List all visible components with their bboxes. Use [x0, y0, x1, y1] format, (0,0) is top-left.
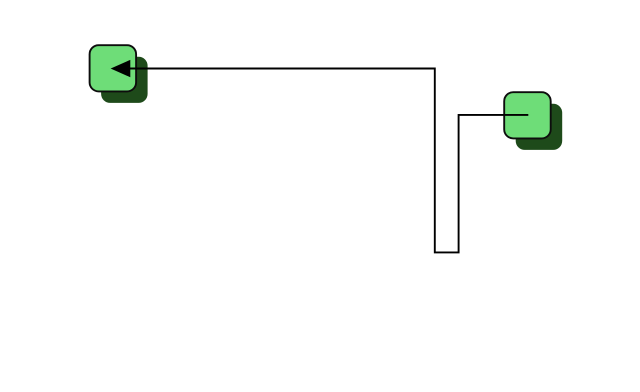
node A box	[90, 45, 137, 91]
node B shadow	[516, 104, 563, 150]
node B box	[504, 92, 551, 138]
node A shadow	[101, 57, 148, 103]
arrowhead	[112, 61, 130, 77]
wire	[115, 69, 528, 253]
